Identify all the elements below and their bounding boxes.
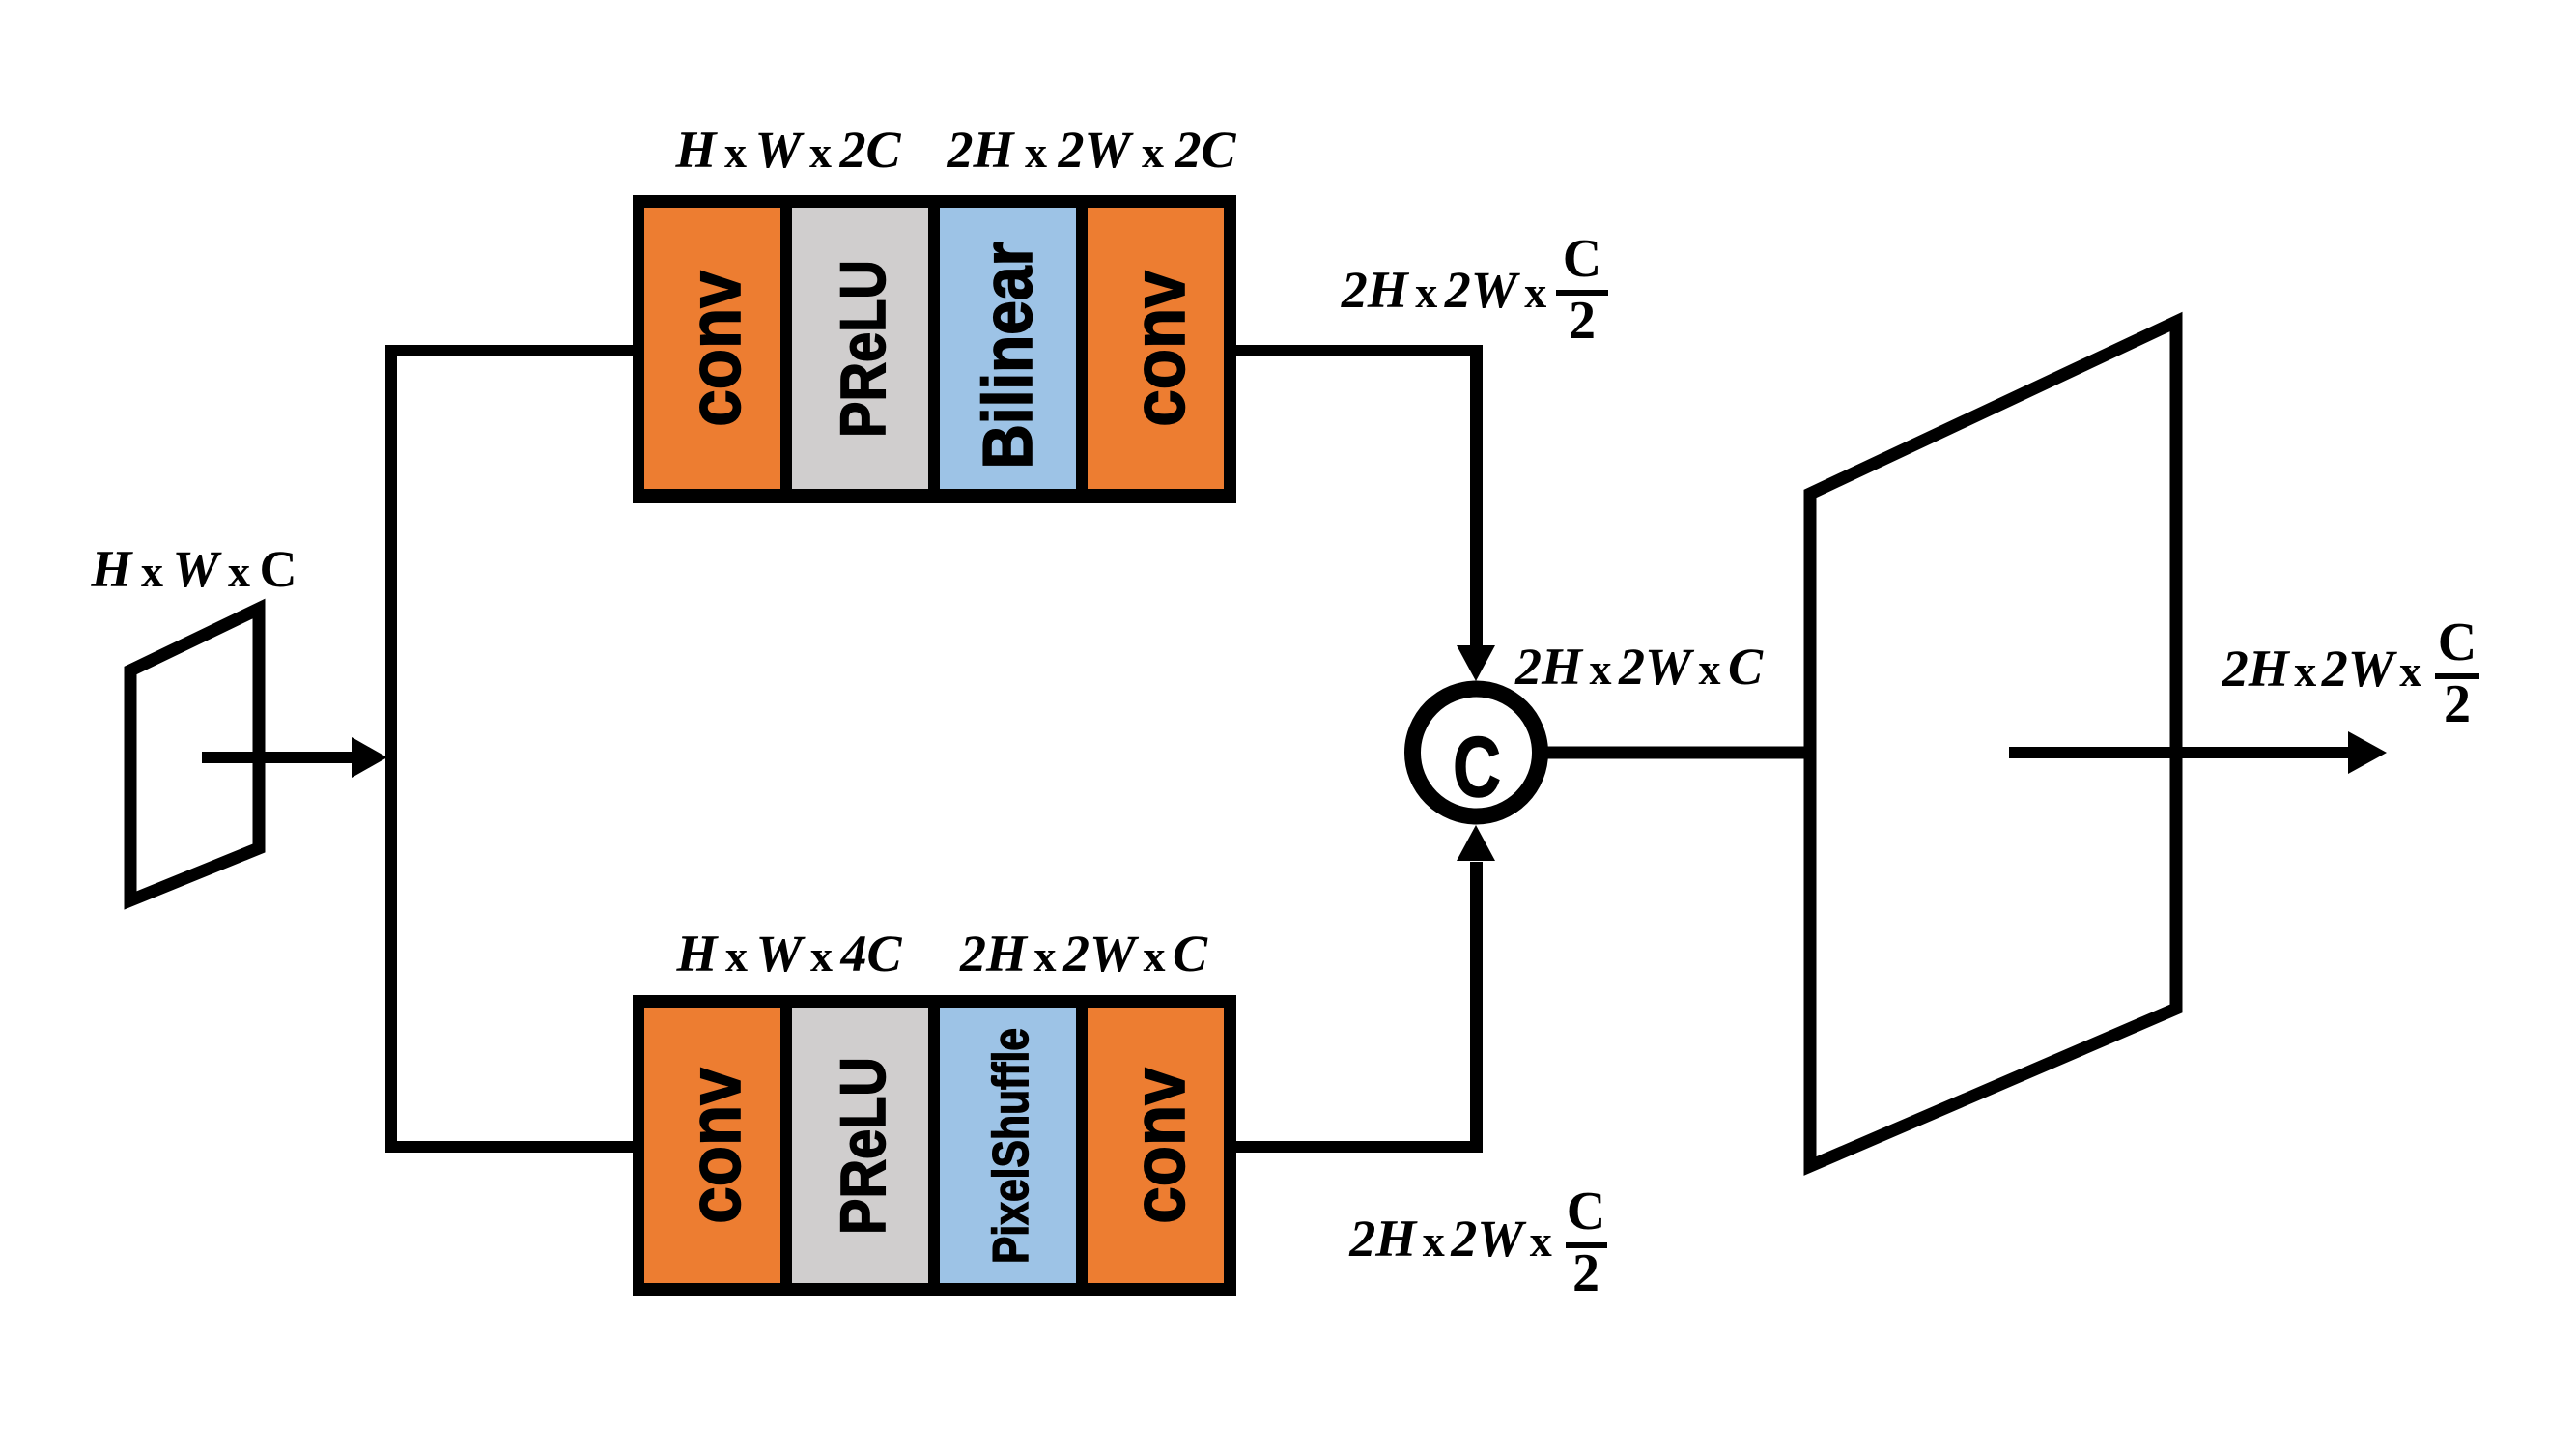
input feature map parallelogram <box>130 609 259 900</box>
bottom block PixelShuffle <box>940 1008 1076 1283</box>
svg-text:H x W x 4C: H x W x 4C <box>675 925 902 983</box>
output feature map parallelogram <box>1810 322 2176 1166</box>
svg-text:Bilinear: Bilinear <box>970 242 1047 469</box>
svg-text:2H x 2W x: 2H x 2W x <box>2222 640 2422 698</box>
svg-text:PReLU: PReLU <box>828 260 898 438</box>
svg-text:2: 2 <box>1569 291 1596 351</box>
svg-text:2H x 2W x C: 2H x 2W x C <box>959 925 1208 983</box>
top block PReLU <box>792 208 928 489</box>
svg-text:2H x 2W x C: 2H x 2W x C <box>1514 638 1764 696</box>
top block conv 2 <box>1088 208 1224 489</box>
wire to top block <box>385 345 644 356</box>
svg-text:PReLU: PReLU <box>828 1057 898 1235</box>
svg-text:2: 2 <box>2444 674 2471 734</box>
top block Bilinear <box>940 208 1076 489</box>
svg-text:H x W x 2C: H x W x 2C <box>674 121 901 179</box>
svg-text:2H x 2W x 2C: 2H x 2W x 2C <box>946 121 1236 179</box>
wire up to concat <box>1470 862 1483 1153</box>
bottom block conv 1 <box>644 1008 780 1283</box>
svg-text:conv: conv <box>674 271 756 427</box>
arrowhead input <box>352 737 387 778</box>
arrowhead output <box>2348 731 2387 774</box>
wire from top block right <box>1231 345 1483 356</box>
svg-text:C: C <box>2438 613 2477 672</box>
svg-text:C: C <box>1453 720 1501 814</box>
svg-text:2H x 2W x: 2H x 2W x <box>1348 1210 1552 1268</box>
wire branch vertical <box>385 345 397 1153</box>
svg-text:2: 2 <box>1572 1243 1599 1303</box>
output arrow line <box>2009 747 2353 758</box>
arrowhead up into concat <box>1457 825 1495 861</box>
svg-text:PixelShuffle: PixelShuffle <box>983 1028 1039 1264</box>
bottom block container <box>633 995 1236 1296</box>
svg-text:C: C <box>1563 229 1601 289</box>
top block container <box>633 195 1236 503</box>
concat node circle <box>1413 689 1541 816</box>
wire to bottom block <box>385 1141 644 1153</box>
svg-text:H x W x C: H x W x C <box>90 540 297 598</box>
svg-text:C: C <box>1567 1182 1605 1241</box>
arrowhead down into concat <box>1457 645 1495 681</box>
wire from concat to output map <box>1540 747 1811 759</box>
svg-text:conv: conv <box>1118 1068 1201 1224</box>
top block conv 1 <box>644 208 780 489</box>
svg-text:conv: conv <box>674 1068 756 1224</box>
svg-text:conv: conv <box>1118 271 1201 427</box>
wire down to concat <box>1470 345 1483 649</box>
wire input horizontal <box>202 752 355 763</box>
bottom block conv 2 <box>1088 1008 1224 1283</box>
wire from bottom block right <box>1231 1141 1483 1153</box>
bottom block PReLU <box>792 1008 928 1283</box>
svg-text:2H x 2W x: 2H x 2W x <box>1341 261 1547 319</box>
